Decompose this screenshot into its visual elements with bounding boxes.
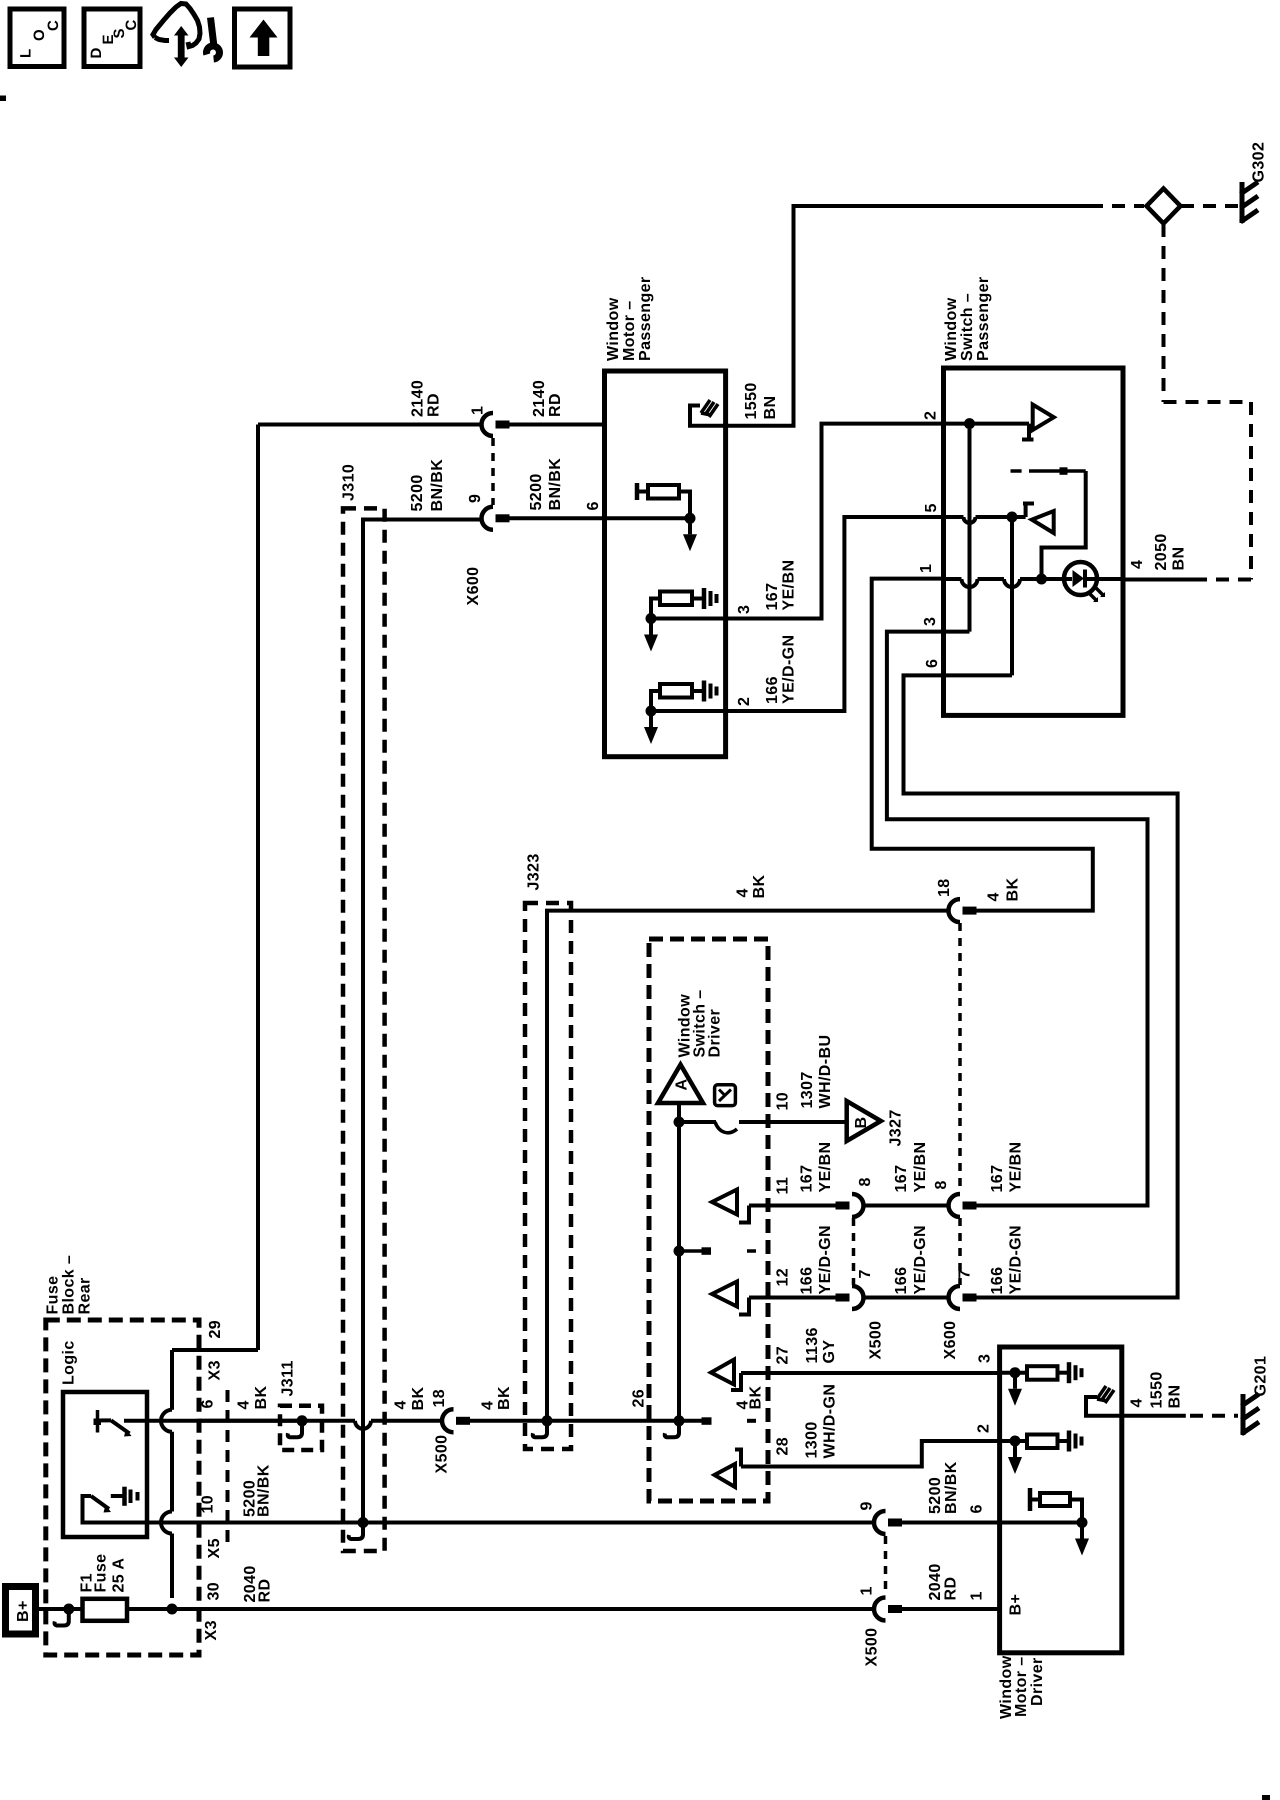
svg-text:BK: BK	[1005, 878, 1022, 902]
svg-text:BN/BK: BN/BK	[429, 459, 446, 512]
bus hop over pin6 wire	[161, 1410, 172, 1432]
svg-text:1307: 1307	[799, 1071, 816, 1108]
svg-text:X500: X500	[434, 1435, 451, 1474]
svg-text:1550: 1550	[743, 382, 760, 419]
svg-text:C: C	[45, 20, 62, 31]
motor arrow down	[1013, 1441, 1017, 1457]
motor passenger winding pin 2	[651, 709, 726, 713]
svg-text:2140: 2140	[531, 380, 548, 417]
wire motor pin3 to switch pin2 167 YE/BN	[726, 424, 944, 619]
svg-text:4: 4	[986, 892, 1003, 901]
svg-text:GY: GY	[821, 1340, 838, 1364]
svg-text:J327: J327	[888, 1109, 905, 1146]
window lockout icon	[715, 1085, 736, 1106]
svg-text:Logic: Logic	[61, 1340, 78, 1385]
continuation triangle A	[658, 1065, 703, 1103]
svg-text:BK: BK	[496, 1386, 513, 1410]
svg-text:YE/BN: YE/BN	[1008, 1142, 1025, 1193]
LED indicator	[1064, 562, 1097, 595]
svg-text:Passenger: Passenger	[975, 276, 992, 361]
switch passenger LED wire pin1/pin4	[944, 577, 962, 581]
bus hop over pin10 wire	[161, 1512, 172, 1534]
motor arrow down	[649, 619, 653, 635]
wire 1300 WH/D-GN pin 28	[741, 1441, 1000, 1467]
svg-text:4: 4	[1129, 1398, 1146, 1407]
svg-text:11: 11	[775, 1177, 792, 1195]
logic box	[63, 1392, 147, 1537]
svg-text:L: L	[18, 48, 35, 58]
svg-text:28: 28	[775, 1437, 792, 1456]
toolbar icon up-arrow box	[235, 9, 291, 67]
contact triangle down	[1033, 405, 1054, 431]
svg-text:X3: X3	[207, 1360, 224, 1380]
svg-text:3: 3	[736, 605, 753, 614]
wire B+ to fuse F1	[39, 1607, 83, 1611]
switch passenger pin2 internal	[944, 422, 1030, 426]
svg-text:BK: BK	[748, 1386, 765, 1410]
connector X500 pin 7	[852, 1286, 864, 1309]
svg-text:166: 166	[893, 1267, 910, 1295]
svg-text:26: 26	[631, 1389, 648, 1408]
motor passenger winding pin 3	[651, 617, 726, 621]
connector X500 pin 18	[442, 1409, 454, 1432]
motor arrow down	[649, 711, 653, 727]
svg-text:WH/D-BU: WH/D-BU	[817, 1035, 834, 1109]
motor passenger winding pin 6	[635, 483, 640, 500]
svg-text:1: 1	[859, 1586, 876, 1595]
svg-text:Fuse: Fuse	[93, 1554, 110, 1593]
svg-text:Driver: Driver	[1029, 1657, 1046, 1706]
motor arrow down	[1080, 1523, 1084, 1539]
LED arrows	[1088, 587, 1104, 601]
svg-text:166: 166	[989, 1267, 1006, 1295]
bus end terminal	[702, 1417, 712, 1425]
connector X500 pin 1	[874, 1598, 886, 1621]
motor arrow down	[688, 518, 692, 534]
svg-text:BK: BK	[751, 875, 768, 899]
svg-text:J323: J323	[526, 853, 543, 890]
wire 4 BK bus	[199, 1419, 302, 1423]
wire 167 YE/BN pin 11	[749, 1204, 837, 1208]
connector X600 dashed link vertical	[958, 923, 962, 1193]
wire 1550 BN dashed	[1090, 204, 1144, 208]
window motor driver box	[1000, 1347, 1122, 1653]
svg-text:Motor –: Motor –	[621, 300, 638, 361]
wire motor pin2 to switch pin5 166 YE/D-GN	[726, 517, 944, 711]
svg-text:X5: X5	[206, 1538, 223, 1558]
switch driver common wire	[677, 1103, 681, 1421]
motor driver winding pin 6	[1028, 1488, 1033, 1511]
splice pack J323 dashed box	[525, 903, 571, 1449]
svg-text:18: 18	[936, 878, 953, 897]
svg-text:RD: RD	[547, 393, 564, 417]
ground G201	[1241, 1394, 1246, 1435]
internal wire pin2 to pin3	[968, 429, 972, 632]
connector X3/X5 dashed line	[226, 1390, 230, 1545]
contact pin 28	[715, 1464, 736, 1487]
svg-text:YE/D-GN: YE/D-GN	[781, 635, 798, 704]
svg-text:YE/D-GN: YE/D-GN	[912, 1225, 929, 1294]
wire pin3 to X600 pin8 167	[887, 632, 1148, 1206]
B+ terminal box	[6, 1587, 36, 1635]
svg-text:J310: J310	[341, 464, 358, 501]
svg-text:YE/BN: YE/BN	[817, 1142, 834, 1193]
motor arrow down	[1013, 1373, 1017, 1389]
svg-text:1136: 1136	[804, 1327, 821, 1363]
wire fuse pin 10 5200 BN/BK	[147, 1521, 873, 1525]
svg-text:2: 2	[923, 411, 940, 420]
svg-text:10: 10	[775, 1092, 792, 1111]
svg-text:6: 6	[585, 501, 602, 510]
svg-text:27: 27	[775, 1346, 792, 1365]
window switch passenger box	[944, 368, 1124, 715]
svg-text:6: 6	[924, 659, 941, 668]
fuse block dashed box Fuse Block - Rear	[46, 1320, 199, 1655]
junction J311	[297, 1415, 308, 1426]
svg-text:1: 1	[969, 1591, 986, 1600]
svg-text:4: 4	[735, 888, 752, 897]
toolbar icon car adjust	[153, 4, 200, 47]
svg-text:4: 4	[393, 1400, 410, 1409]
wire fuse pin 6 logic to bus 4 BK	[124, 1419, 302, 1423]
svg-text:8: 8	[933, 1180, 950, 1189]
wire 1550 BN	[1122, 1414, 1186, 1418]
svg-text:BN: BN	[1167, 1385, 1184, 1409]
wiper arm B row	[679, 1120, 716, 1124]
svg-text:5200: 5200	[528, 473, 545, 510]
svg-text:X600: X600	[942, 1321, 959, 1360]
junction fuse bus	[167, 1604, 178, 1615]
connector X600 pin 1	[482, 413, 493, 436]
svg-text:1: 1	[918, 564, 935, 573]
svg-text:Passenger: Passenger	[637, 276, 654, 361]
junction J323 on bus	[542, 1415, 553, 1426]
wire 166 YE/D-GN pin 12	[749, 1296, 837, 1300]
svg-text:RD: RD	[257, 1579, 274, 1603]
splice hook J311	[288, 1425, 302, 1438]
connector X600 pin 8	[949, 1194, 960, 1217]
svg-text:X500: X500	[868, 1321, 885, 1360]
svg-text:YE/BN: YE/BN	[781, 560, 798, 611]
splice hook B+	[55, 1613, 69, 1626]
connector X600 dashed link	[491, 438, 495, 505]
motor driver case ground 1550	[1097, 1386, 1114, 1403]
junction J310 / 5200 bus	[358, 1517, 369, 1528]
svg-text:2: 2	[976, 1424, 993, 1433]
svg-text:Window: Window	[605, 297, 622, 361]
wire pin6 to X600 pin7 166	[904, 675, 1178, 1297]
svg-text:G201: G201	[1253, 1356, 1270, 1397]
svg-text:2: 2	[736, 697, 753, 706]
svg-text:167: 167	[989, 1165, 1006, 1193]
svg-text:D: D	[88, 47, 105, 58]
svg-text:C: C	[123, 19, 140, 30]
page corner mark	[1262, 1795, 1270, 1800]
wire 5200 BN/BK to driver motor	[902, 1521, 1000, 1525]
fuse block internal bus	[170, 1350, 174, 1410]
svg-text:2040: 2040	[927, 1563, 944, 1600]
svg-text:BN/BK: BN/BK	[547, 458, 564, 511]
connector X600 pin 9	[482, 507, 493, 530]
motor driver winding pin 2	[1000, 1439, 1027, 1443]
svg-text:29: 29	[207, 1320, 224, 1339]
svg-text:Switch –: Switch –	[959, 293, 976, 361]
svg-text:X500: X500	[864, 1628, 881, 1667]
svg-text:25 A: 25 A	[111, 1558, 128, 1593]
wire 2050 BN	[1123, 578, 1195, 582]
connector X600 pin 7	[949, 1286, 960, 1309]
hop	[964, 517, 976, 523]
svg-text:10: 10	[200, 1495, 217, 1514]
dashed ground branch to 2050	[1162, 224, 1166, 402]
splice hook J323	[533, 1425, 547, 1438]
wire to G302 dashed	[1181, 204, 1238, 208]
svg-text:X600: X600	[465, 567, 482, 606]
svg-text:12: 12	[775, 1268, 792, 1287]
contact pin 12	[712, 1282, 737, 1307]
svg-text:1550: 1550	[1149, 1371, 1166, 1408]
bus hop over J310 wire	[355, 1421, 371, 1429]
svg-text:5200: 5200	[409, 474, 426, 511]
svg-text:BN: BN	[762, 396, 779, 420]
svg-text:Block –: Block –	[61, 1255, 78, 1315]
wire 2140 RD to motor	[509, 423, 605, 427]
svg-text:3: 3	[977, 1354, 994, 1363]
svg-text:YE/D-GN: YE/D-GN	[1008, 1225, 1025, 1294]
svg-text:3: 3	[922, 617, 939, 626]
svg-text:YE/BN: YE/BN	[912, 1142, 929, 1193]
svg-text:166: 166	[764, 676, 781, 704]
svg-text:18: 18	[431, 1389, 448, 1408]
connector X500 dashed link	[884, 1536, 888, 1596]
wire 2040 RD fuse to X500	[127, 1607, 873, 1611]
logic contact K2 with chassis ground	[83, 1496, 148, 1523]
svg-text:167: 167	[764, 583, 781, 611]
svg-text:Driver: Driver	[707, 1009, 724, 1058]
wire 1550 BN to splice	[726, 206, 1090, 426]
wire 166 YE/D-GN	[864, 1296, 949, 1300]
svg-text:A: A	[674, 1079, 691, 1091]
svg-text:BN/BK: BN/BK	[943, 1461, 960, 1514]
svg-text:WH/D-GN: WH/D-GN	[822, 1384, 839, 1459]
svg-text:6: 6	[200, 1399, 217, 1408]
svg-text:4: 4	[1129, 560, 1146, 569]
splice hook J310	[349, 1527, 363, 1540]
icon wrench	[211, 18, 214, 46]
svg-text:X3: X3	[203, 1620, 220, 1640]
svg-text:5: 5	[923, 503, 940, 512]
svg-text:B+: B+	[15, 1600, 32, 1622]
svg-text:Rear: Rear	[77, 1277, 94, 1314]
svg-text:J311: J311	[280, 1360, 297, 1396]
connector X500 pin 8	[852, 1194, 864, 1217]
splice pack J311 dashed box	[280, 1406, 322, 1450]
logic contact K1	[96, 1410, 100, 1433]
contact triangle up	[1032, 511, 1054, 533]
svg-text:6: 6	[969, 1504, 986, 1513]
svg-text:B+: B+	[1008, 1594, 1025, 1616]
svg-text:167: 167	[893, 1165, 910, 1193]
wire 2140 RD riser	[256, 425, 260, 1351]
fuse F1 25A	[83, 1599, 128, 1621]
svg-text:Window: Window	[943, 297, 960, 361]
switch passenger pin5 internal	[944, 515, 964, 519]
splice diamond	[1147, 189, 1181, 224]
svg-text:9: 9	[467, 494, 484, 503]
wire 167 YE/BN	[864, 1204, 949, 1208]
svg-text:166: 166	[799, 1267, 816, 1295]
wire 1307 WH/D-BU	[739, 1120, 847, 1124]
wire 2040 RD to driver motor	[902, 1607, 1000, 1611]
wire J310 5200 BN/BK riser	[363, 520, 481, 1523]
svg-text:9: 9	[859, 1501, 876, 1510]
actuator dot-dash driver	[684, 1249, 702, 1253]
svg-text:B: B	[853, 1117, 870, 1129]
svg-text:RD: RD	[943, 1577, 960, 1601]
svg-text:RD: RD	[426, 393, 443, 417]
wire J323 riser 4 BK	[547, 911, 949, 1421]
svg-text:4: 4	[236, 1400, 253, 1409]
svg-text:BK: BK	[410, 1387, 427, 1411]
ground G302	[1240, 182, 1245, 223]
splice hook pin26	[665, 1425, 679, 1438]
contact pin 11	[712, 1190, 737, 1215]
wire pin1 ground path 4 BK	[872, 579, 1093, 911]
svg-text:2140: 2140	[410, 380, 427, 417]
svg-text:167: 167	[799, 1165, 816, 1193]
svg-text:1: 1	[470, 406, 487, 415]
window switch driver dashed box	[649, 939, 768, 1501]
switch passenger actuator dot-dash	[1011, 469, 1022, 473]
svg-text:7: 7	[957, 1269, 974, 1278]
window motor passenger box	[605, 371, 726, 757]
svg-text:BN/BK: BN/BK	[256, 1464, 273, 1517]
svg-text:BK: BK	[253, 1386, 270, 1410]
junction switch driver pin 26	[674, 1415, 685, 1426]
svg-text:5200: 5200	[927, 1477, 944, 1514]
icon car up/down arrow	[174, 26, 189, 36]
page edge tick	[0, 96, 6, 102]
splice pack J310 dashed box	[343, 508, 385, 1551]
svg-text:G302: G302	[1251, 142, 1268, 183]
svg-text:Motor –: Motor –	[1013, 1656, 1030, 1717]
connector X500 pin 9	[874, 1511, 886, 1534]
toolbar icon DESC	[84, 9, 140, 67]
svg-text:2050: 2050	[1153, 533, 1170, 570]
connector X500 dashed link	[852, 1218, 856, 1285]
svg-text:30: 30	[206, 1582, 223, 1601]
svg-text:8: 8	[857, 1177, 874, 1186]
junction B+ tap	[63, 1604, 74, 1615]
svg-text:Fuse: Fuse	[45, 1276, 62, 1315]
wire 1136 GY pin 27	[741, 1371, 1000, 1375]
wire 1550 BN dashed	[1190, 1414, 1238, 1418]
svg-text:BN: BN	[1171, 547, 1188, 571]
svg-text:7: 7	[857, 1269, 874, 1278]
dash to switch box	[747, 1419, 756, 1423]
connector X600 pin 18	[949, 899, 960, 922]
motor driver winding pin 3	[1000, 1371, 1027, 1375]
toolbar icon LOC	[10, 9, 64, 67]
internal wire pin5 to pin6	[1010, 522, 1014, 675]
svg-text:1300: 1300	[804, 1421, 821, 1458]
wire 5200 BN/BK to motor	[509, 516, 605, 520]
svg-text:4: 4	[480, 1401, 497, 1410]
motor passenger case ground 1550	[701, 400, 718, 417]
svg-text:YE/D-GN: YE/D-GN	[817, 1225, 834, 1294]
continuation triangle B J327	[847, 1101, 881, 1141]
wire fuse pin 29	[172, 1348, 258, 1352]
contact pin 27	[711, 1360, 734, 1385]
